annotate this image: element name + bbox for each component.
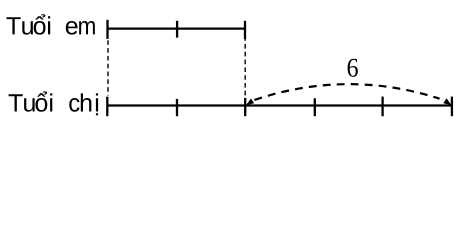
label Tuổi chị [9,91,98,115]
dashed vertical left [107,40,109,95]
tick bottom-1 [106,97,108,117]
tick bottom-3 [244,98,246,116]
tick top-1 [106,20,108,39]
tick bottom-5 [381,97,383,117]
dashed vertical right [244,36,246,95]
tick bottom-2 [176,99,178,116]
arrowhead left [246,99,254,106]
arrowhead right [443,98,451,105]
bar: tuổi em (top segment line) [108,28,246,30]
label Tuổi em [7,14,95,34]
tick top-3 [244,21,246,39]
dashed brace arc [254,84,439,100]
bar: tuổi chị (bottom segment line) [107,104,452,106]
tick bottom-6 [451,97,453,117]
label 6 [348,59,358,77]
tick top-2 [176,21,178,38]
tick bottom-4 [314,98,316,116]
